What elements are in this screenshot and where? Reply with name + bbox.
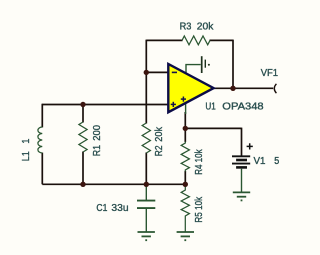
junction node C1 top <box>144 182 149 187</box>
svg-text:R4: R4 <box>194 164 205 175</box>
junction node R4 R5 <box>183 182 188 187</box>
svg-text:OPA348: OPA348 <box>222 102 264 113</box>
battery V1 <box>232 143 253 192</box>
wire R1 bottom lead <box>82 152 84 185</box>
wire battery top lead <box>241 128 243 156</box>
svg-text:U1: U1 <box>205 102 216 113</box>
junction node output <box>230 86 235 91</box>
wire top feedback row right lead <box>210 39 234 41</box>
wire noninverting input row y=104 <box>42 104 169 106</box>
svg-text:V1: V1 <box>254 156 266 167</box>
svg-text:VF1: VF1 <box>261 68 279 79</box>
svg-text:1: 1 <box>21 138 32 143</box>
wire L1 bottom lead <box>41 153 43 185</box>
capacitor C1 <box>137 184 155 231</box>
resistor R4 <box>181 142 189 172</box>
svg-text:R3: R3 <box>180 22 192 33</box>
ground under R5 <box>177 232 194 240</box>
resistor R5 <box>181 184 189 232</box>
svg-text:10k: 10k <box>194 196 205 210</box>
wire R2 bottom lead <box>145 153 147 185</box>
wire left vertical x=146 from R3 to R2 top <box>145 40 147 124</box>
svg-text:R2: R2 <box>154 145 165 156</box>
wire R4 top lead <box>184 112 186 142</box>
svg-text:L1: L1 <box>21 151 32 162</box>
svg-text:33u: 33u <box>111 203 128 214</box>
junction node supply feed <box>183 126 188 131</box>
svg-text:200: 200 <box>92 125 103 141</box>
wire L1 top lead <box>41 104 43 128</box>
wire inverting input stub <box>146 71 169 73</box>
output terminal VF1 <box>274 84 276 93</box>
junction node R1 top <box>80 102 85 107</box>
op-amp U1 negative supply pin <box>185 102 187 114</box>
inductor L1 <box>38 127 42 153</box>
ground under C1 <box>138 232 155 240</box>
svg-text:10k: 10k <box>194 149 205 163</box>
junction node R1 bottom <box>80 182 85 187</box>
resistor R1 <box>79 122 87 152</box>
op-amp power plus marker <box>181 97 186 102</box>
op-amp U1 positive supply pin <box>186 56 210 73</box>
wire bottom rail y=184 <box>42 183 185 185</box>
svg-text:R1: R1 <box>92 145 103 157</box>
svg-text:5: 5 <box>274 156 279 167</box>
wire output row y=88 <box>213 87 273 89</box>
svg-text:R5: R5 <box>194 212 205 223</box>
junction node at inverting input <box>144 70 149 75</box>
svg-text:20k: 20k <box>154 126 165 142</box>
op-amp U1 <box>168 64 213 112</box>
wire top feedback row left lead <box>146 39 182 41</box>
resistor R2 <box>142 123 150 153</box>
wire R1 top lead <box>82 105 84 123</box>
ground under V1 <box>233 192 250 200</box>
resistor R3 <box>182 36 210 45</box>
op-amp minus marker <box>172 71 177 73</box>
wire feedback vertical x=233 <box>232 40 234 89</box>
svg-text:20k: 20k <box>197 22 215 33</box>
wire R4 bottom lead <box>184 171 186 184</box>
op-amp plus marker <box>171 102 176 107</box>
svg-text:C1: C1 <box>96 203 107 214</box>
wire battery feed y=128 <box>185 127 241 129</box>
